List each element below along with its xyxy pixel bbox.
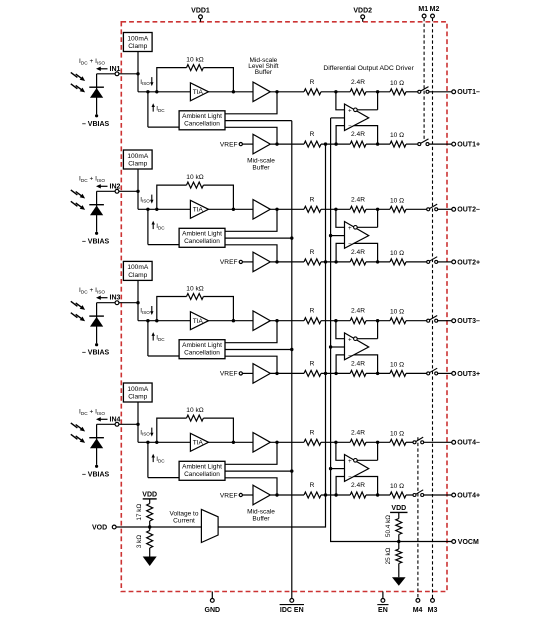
svg-text:VDD: VDD [142,492,157,499]
svg-text:Mid-scale: Mid-scale [247,508,275,515]
svg-text:−: − [348,474,352,481]
svg-text:R: R [310,249,315,256]
svg-text:100mA: 100mA [127,35,148,42]
svg-text:VDD1: VDD1 [191,7,210,14]
svg-text:VREF: VREF [220,259,238,266]
svg-text:+: + [348,337,352,344]
svg-text:+: + [348,108,352,115]
svg-text:10 kΩ: 10 kΩ [186,286,203,293]
svg-text:IDC EN: IDC EN [280,607,304,614]
svg-text:2.4R: 2.4R [351,249,365,256]
svg-text:OUT4+: OUT4+ [457,492,480,499]
svg-text:2.4R: 2.4R [351,196,365,203]
svg-text:OUT3+: OUT3+ [457,371,480,378]
svg-text:IN2: IN2 [110,183,121,190]
svg-text:TIA: TIA [193,207,204,214]
svg-text:10 kΩ: 10 kΩ [186,57,203,64]
svg-text:Cancellation: Cancellation [184,121,220,128]
svg-text:Voltage to: Voltage to [170,510,199,517]
svg-text:TIA: TIA [193,440,204,447]
svg-text:10 Ω: 10 Ω [390,132,404,139]
svg-text:2.4R: 2.4R [351,308,365,315]
svg-text:2.4R: 2.4R [351,429,365,436]
svg-text:Current: Current [173,518,195,525]
svg-text:Ambient Light: Ambient Light [182,231,222,238]
svg-text:– VBIAS: – VBIAS [82,350,110,357]
svg-text:Cancellation: Cancellation [184,238,220,245]
svg-text:Ambient Light: Ambient Light [182,113,222,120]
svg-text:– VBIAS: – VBIAS [82,471,110,478]
svg-text:R: R [310,429,315,436]
svg-text:2.4R: 2.4R [351,79,365,86]
svg-text:VREF: VREF [220,492,238,499]
svg-text:Buffer: Buffer [255,69,273,76]
svg-text:10 Ω: 10 Ω [390,309,404,316]
svg-text:−: − [348,123,352,130]
svg-text:Clamp: Clamp [128,161,147,168]
svg-text:10 Ω: 10 Ω [390,361,404,368]
svg-text:−: − [348,241,352,248]
svg-text:VDD2: VDD2 [353,7,372,14]
svg-text:10 Ω: 10 Ω [390,430,404,437]
svg-text:+: + [348,225,352,232]
svg-text:OUT1–: OUT1– [457,89,480,96]
svg-text:VDD: VDD [391,505,406,512]
svg-text:IN1: IN1 [110,66,121,73]
svg-text:Buffer: Buffer [252,165,270,172]
svg-text:Differential Output ADC Driver: Differential Output ADC Driver [323,65,414,72]
svg-text:M4: M4 [413,607,423,614]
svg-text:TIA: TIA [193,89,204,96]
svg-text:R: R [310,79,315,86]
svg-text:Ambient Light: Ambient Light [182,342,222,349]
svg-text:R: R [310,360,315,367]
svg-text:Ambient Light: Ambient Light [182,464,222,471]
svg-text:2.4R: 2.4R [351,360,365,367]
svg-text:R: R [310,196,315,203]
svg-text:EN: EN [378,607,388,614]
svg-text:– VBIAS: – VBIAS [82,121,110,128]
svg-text:10 kΩ: 10 kΩ [186,174,203,181]
svg-text:OUT2–: OUT2– [457,207,480,214]
svg-text:Clamp: Clamp [128,272,147,279]
svg-text:50.4 kΩ: 50.4 kΩ [385,515,392,537]
svg-text:M3: M3 [428,607,438,614]
svg-text:M1: M1 [418,6,428,13]
svg-text:2.4R: 2.4R [351,482,365,489]
svg-text:OUT2+: OUT2+ [457,259,480,266]
svg-text:R: R [310,308,315,315]
svg-text:OUT3–: OUT3– [457,318,480,325]
svg-text:−: − [348,352,352,359]
svg-text:100mA: 100mA [127,386,148,393]
svg-text:Mid-scale: Mid-scale [247,157,275,164]
svg-text:VOD: VOD [92,525,107,532]
svg-text:10 Ω: 10 Ω [390,483,404,490]
svg-text:– VBIAS: – VBIAS [82,238,110,245]
svg-text:10 Ω: 10 Ω [390,250,404,257]
svg-text:Buffer: Buffer [252,515,270,522]
svg-text:VREF: VREF [220,371,238,378]
svg-text:IN4: IN4 [110,416,121,423]
svg-text:+: + [348,458,352,465]
svg-text:Clamp: Clamp [128,43,147,50]
svg-text:10 Ω: 10 Ω [390,197,404,204]
svg-text:R: R [310,482,315,489]
svg-text:17 kΩ: 17 kΩ [136,504,143,521]
svg-text:OUT4–: OUT4– [457,440,480,447]
svg-text:Cancellation: Cancellation [184,350,220,357]
svg-text:M2: M2 [430,6,440,13]
svg-text:GND: GND [205,607,221,614]
svg-text:2.4R: 2.4R [351,131,365,138]
svg-text:OUT1+: OUT1+ [457,142,480,149]
svg-text:Clamp: Clamp [128,394,147,401]
svg-text:VOCM: VOCM [458,539,479,546]
svg-text:10 Ω: 10 Ω [390,80,404,87]
svg-text:R: R [310,131,315,138]
svg-text:100mA: 100mA [127,153,148,160]
svg-text:25 kΩ: 25 kΩ [385,547,392,564]
svg-text:TIA: TIA [193,318,204,325]
svg-text:IN3: IN3 [110,295,121,302]
svg-text:Cancellation: Cancellation [184,471,220,478]
svg-text:10 kΩ: 10 kΩ [186,407,203,414]
svg-text:VREF: VREF [220,141,238,148]
svg-text:100mA: 100mA [127,264,148,271]
svg-text:3 kΩ: 3 kΩ [136,535,143,549]
